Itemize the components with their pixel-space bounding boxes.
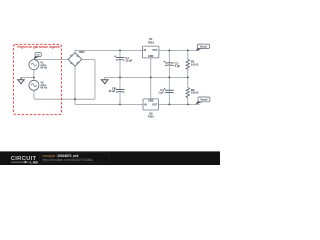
wire R2 column stubs xyxy=(187,77,189,104)
svg-text:LAB: LAB xyxy=(30,161,38,165)
wire C2 column mid rail to negative bus xyxy=(119,77,121,104)
svg-text:GND: GND xyxy=(148,99,154,102)
wire C1 column top rail to mid rail xyxy=(119,50,121,77)
label U1 7812 xyxy=(148,37,155,44)
svg-text:10 µF: 10 µF xyxy=(108,89,115,93)
svg-text:GND: GND xyxy=(148,55,154,58)
node bridge bottom / V2 wire junction xyxy=(74,98,76,100)
svg-text:1 µF: 1 µF xyxy=(158,91,164,95)
label C1 value xyxy=(125,56,132,63)
svg-text:IN: IN xyxy=(144,49,147,52)
svg-text:Region ini gak belum digamb: Region ini gak belum digamb xyxy=(17,45,59,49)
ground (right, mid rail) xyxy=(101,80,108,84)
label R2 value xyxy=(191,88,199,95)
node R2 bottom rail junction xyxy=(187,104,189,106)
resistor R1 xyxy=(186,59,190,69)
capacitor C1 xyxy=(114,55,124,60)
svg-text:100 Ω: 100 Ω xyxy=(191,62,199,66)
svg-text:7812: 7812 xyxy=(148,40,155,44)
label R1 value xyxy=(191,60,199,67)
node R1 top rail junction xyxy=(187,50,189,52)
svg-text:10 µF: 10 µF xyxy=(125,59,132,63)
svg-text:BR1: BR1 xyxy=(79,50,85,54)
footer info text xyxy=(40,153,110,163)
svg-text:60 Hz: 60 Hz xyxy=(40,66,47,69)
voltage source V1 xyxy=(29,60,39,70)
wire U1 OUT to +12V rail end xyxy=(159,49,199,51)
wire U2 OUT to -12V rail end xyxy=(159,103,200,105)
svg-text:OUT: OUT xyxy=(152,103,158,106)
svg-text:Vout1: Vout1 xyxy=(200,45,208,49)
node C1/C2 mid rail junction xyxy=(119,77,121,79)
wire V1 bottom to V2 top xyxy=(33,70,35,81)
voltage source V2 xyxy=(29,80,39,90)
voltage regulator U1 7812 xyxy=(142,46,159,58)
label C2 value xyxy=(108,86,115,93)
resistor R2 xyxy=(186,88,190,98)
capacitor C3 xyxy=(163,61,173,66)
node flag Vin above V1 xyxy=(34,53,42,60)
wire right ground stem xyxy=(104,77,106,79)
label V1 value xyxy=(40,60,47,69)
wire U2 GND pin to mid rail xyxy=(150,77,152,99)
wire R1 column stubs xyxy=(187,50,189,77)
node R1/R2 mid rail junction xyxy=(187,77,189,79)
capacitor C2 xyxy=(114,87,124,92)
svg-text:IN: IN xyxy=(144,103,147,106)
label V2 value xyxy=(40,81,47,90)
svg-text:OUT: OUT xyxy=(153,49,159,52)
node C3/C4 mid rail junction xyxy=(168,77,170,79)
node C4 bottom rail junction xyxy=(168,104,170,106)
junction dots xyxy=(33,50,189,106)
wire V1 top to bridge left corner xyxy=(34,58,68,60)
wire U1 GND pin to mid rail xyxy=(150,58,152,78)
wire bridge top corner to U1 IN (positive rail) xyxy=(75,50,142,52)
CircuitLab logo xyxy=(11,156,39,165)
svg-text:1 µF: 1 µF xyxy=(175,64,181,68)
svg-text:http://circuitlab.com/c/6487sT: http://circuitlab.com/c/6487sT0d8ku xyxy=(42,158,93,162)
node C1 top rail junction xyxy=(119,50,121,52)
pin labels U2 xyxy=(144,99,158,106)
wire bridge bottom corner down to negative bus xyxy=(75,66,143,104)
node center tap junction xyxy=(33,77,35,79)
svg-text:7912: 7912 xyxy=(148,114,155,118)
label C3 value xyxy=(175,61,181,68)
label C4 value xyxy=(158,88,164,95)
capacitor C4 xyxy=(164,88,174,93)
voltage regulator U2 7912 xyxy=(143,99,159,110)
node C3 top rail junction xyxy=(168,50,170,52)
pin labels U1 xyxy=(144,49,159,58)
svg-text:100 Ω: 100 Ω xyxy=(191,91,199,95)
wire center tap to left ground xyxy=(21,76,34,78)
wire mid ground rail xyxy=(105,76,188,78)
wire C4 column xyxy=(168,77,170,104)
node C2 negative bus junction xyxy=(119,104,121,106)
node flag Vout2 xyxy=(195,97,210,105)
svg-text:Vout2: Vout2 xyxy=(200,98,208,102)
footer bar xyxy=(0,151,220,165)
ground (left, center tap) xyxy=(18,77,25,83)
svg-text:60 Hz: 60 Hz xyxy=(40,87,47,90)
node flag Vout1 xyxy=(196,44,210,51)
wire V2 bottom loop to bridge right corner xyxy=(34,59,95,99)
bridge rectifier BR1 xyxy=(68,53,82,67)
label U2 7912 xyxy=(148,112,155,119)
annotation box (red dashed region) xyxy=(14,44,62,114)
node regulators GND mid rail junction xyxy=(150,77,152,79)
wire C3 column xyxy=(168,50,170,77)
